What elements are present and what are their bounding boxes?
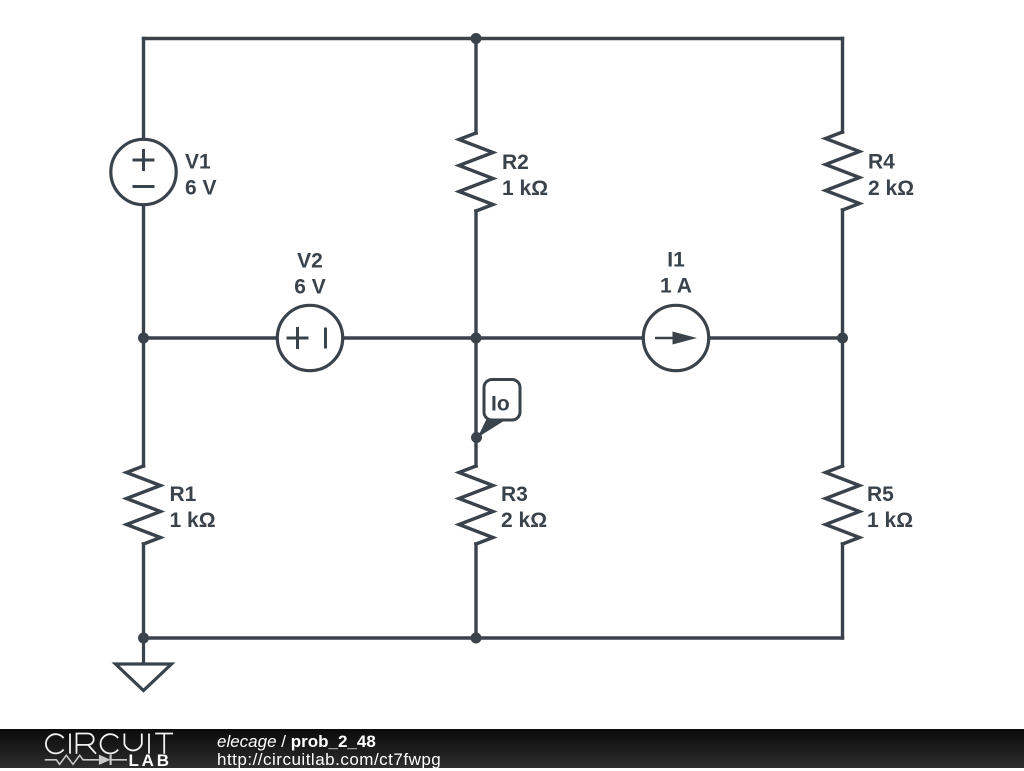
wire middle column between R2 and Io node [474,211,477,438]
svg-text:2 kΩ: 2 kΩ [868,177,914,200]
svg-text:6 V: 6 V [294,276,326,299]
I1 arrow [655,337,677,340]
node junction dot top middle [471,33,482,44]
wire middle column R3 stubs [474,438,477,639]
svg-text:R2: R2 [502,151,529,174]
svg-text:1 kΩ: 1 kΩ [170,509,216,532]
svg-text:R5: R5 [867,483,894,506]
resistor R1 zigzag [127,466,161,544]
wire right column top stub [841,39,844,133]
resistor R2 zigzag [459,133,493,211]
logo letter R [77,734,97,754]
ground symbol [116,638,172,691]
logo letter C [46,734,64,753]
V1 plus sign [133,149,155,171]
voltage source V1 body [111,139,176,204]
svg-text:R1: R1 [170,483,197,506]
wire right column middle [841,210,844,466]
node junction dot left middle [138,333,149,344]
svg-text:6 V: 6 V [185,177,217,200]
svg-text:1 kΩ: 1 kΩ [867,509,913,532]
resistor R5 zigzag [826,466,860,544]
wire top horizontal net [144,37,843,40]
current source I1 body [643,305,708,370]
V1 minus sign [133,185,155,188]
voltage source V2 body [277,305,342,370]
logo resistor-diode squiggle [45,755,127,765]
node junction dot bottom left [138,633,149,644]
node junction dot right middle [837,333,848,344]
resistor R3 zigzag [459,466,493,544]
V2 plus sign [287,327,309,349]
wire middle column top stub [474,39,477,134]
V2 minus sign (vertical bar) [324,328,327,349]
logo letter C [101,734,119,753]
node junction dot bottom middle [471,633,482,644]
logo LAB text [129,751,172,771]
logo diode triangle [99,755,111,765]
resistor R4 zigzag [826,132,860,210]
svg-text:I1: I1 [667,249,685,272]
footer attribution text [217,733,441,768]
logo letter U [124,734,141,751]
footer bar [0,729,1024,768]
wire right column bottom stub [841,544,844,638]
svg-text:Io: Io [491,393,510,416]
svg-text:V1: V1 [185,151,211,174]
svg-text:V2: V2 [297,250,323,273]
logo letter I [69,734,71,754]
logo letter I [148,734,150,754]
wire bottom horizontal net [144,636,843,639]
svg-text:R3: R3 [501,483,528,506]
svg-text:R4: R4 [868,151,895,174]
logo CIRCUIT wordmark [46,734,173,754]
wire middle horizontal net (through V2 and I1) [144,336,843,339]
wire left column (through V1) [142,39,145,467]
Io probe pointer wedge [478,416,508,438]
node Io measurement dot [471,432,482,443]
svg-text:1 A: 1 A [660,275,692,298]
svg-text:1 kΩ: 1 kΩ [502,177,548,200]
Io label box [484,380,520,421]
svg-text:2 kΩ: 2 kΩ [501,509,547,532]
node junction dot center [471,333,482,344]
logo letter T [155,734,173,754]
wire R1 bottom stub [142,544,145,638]
